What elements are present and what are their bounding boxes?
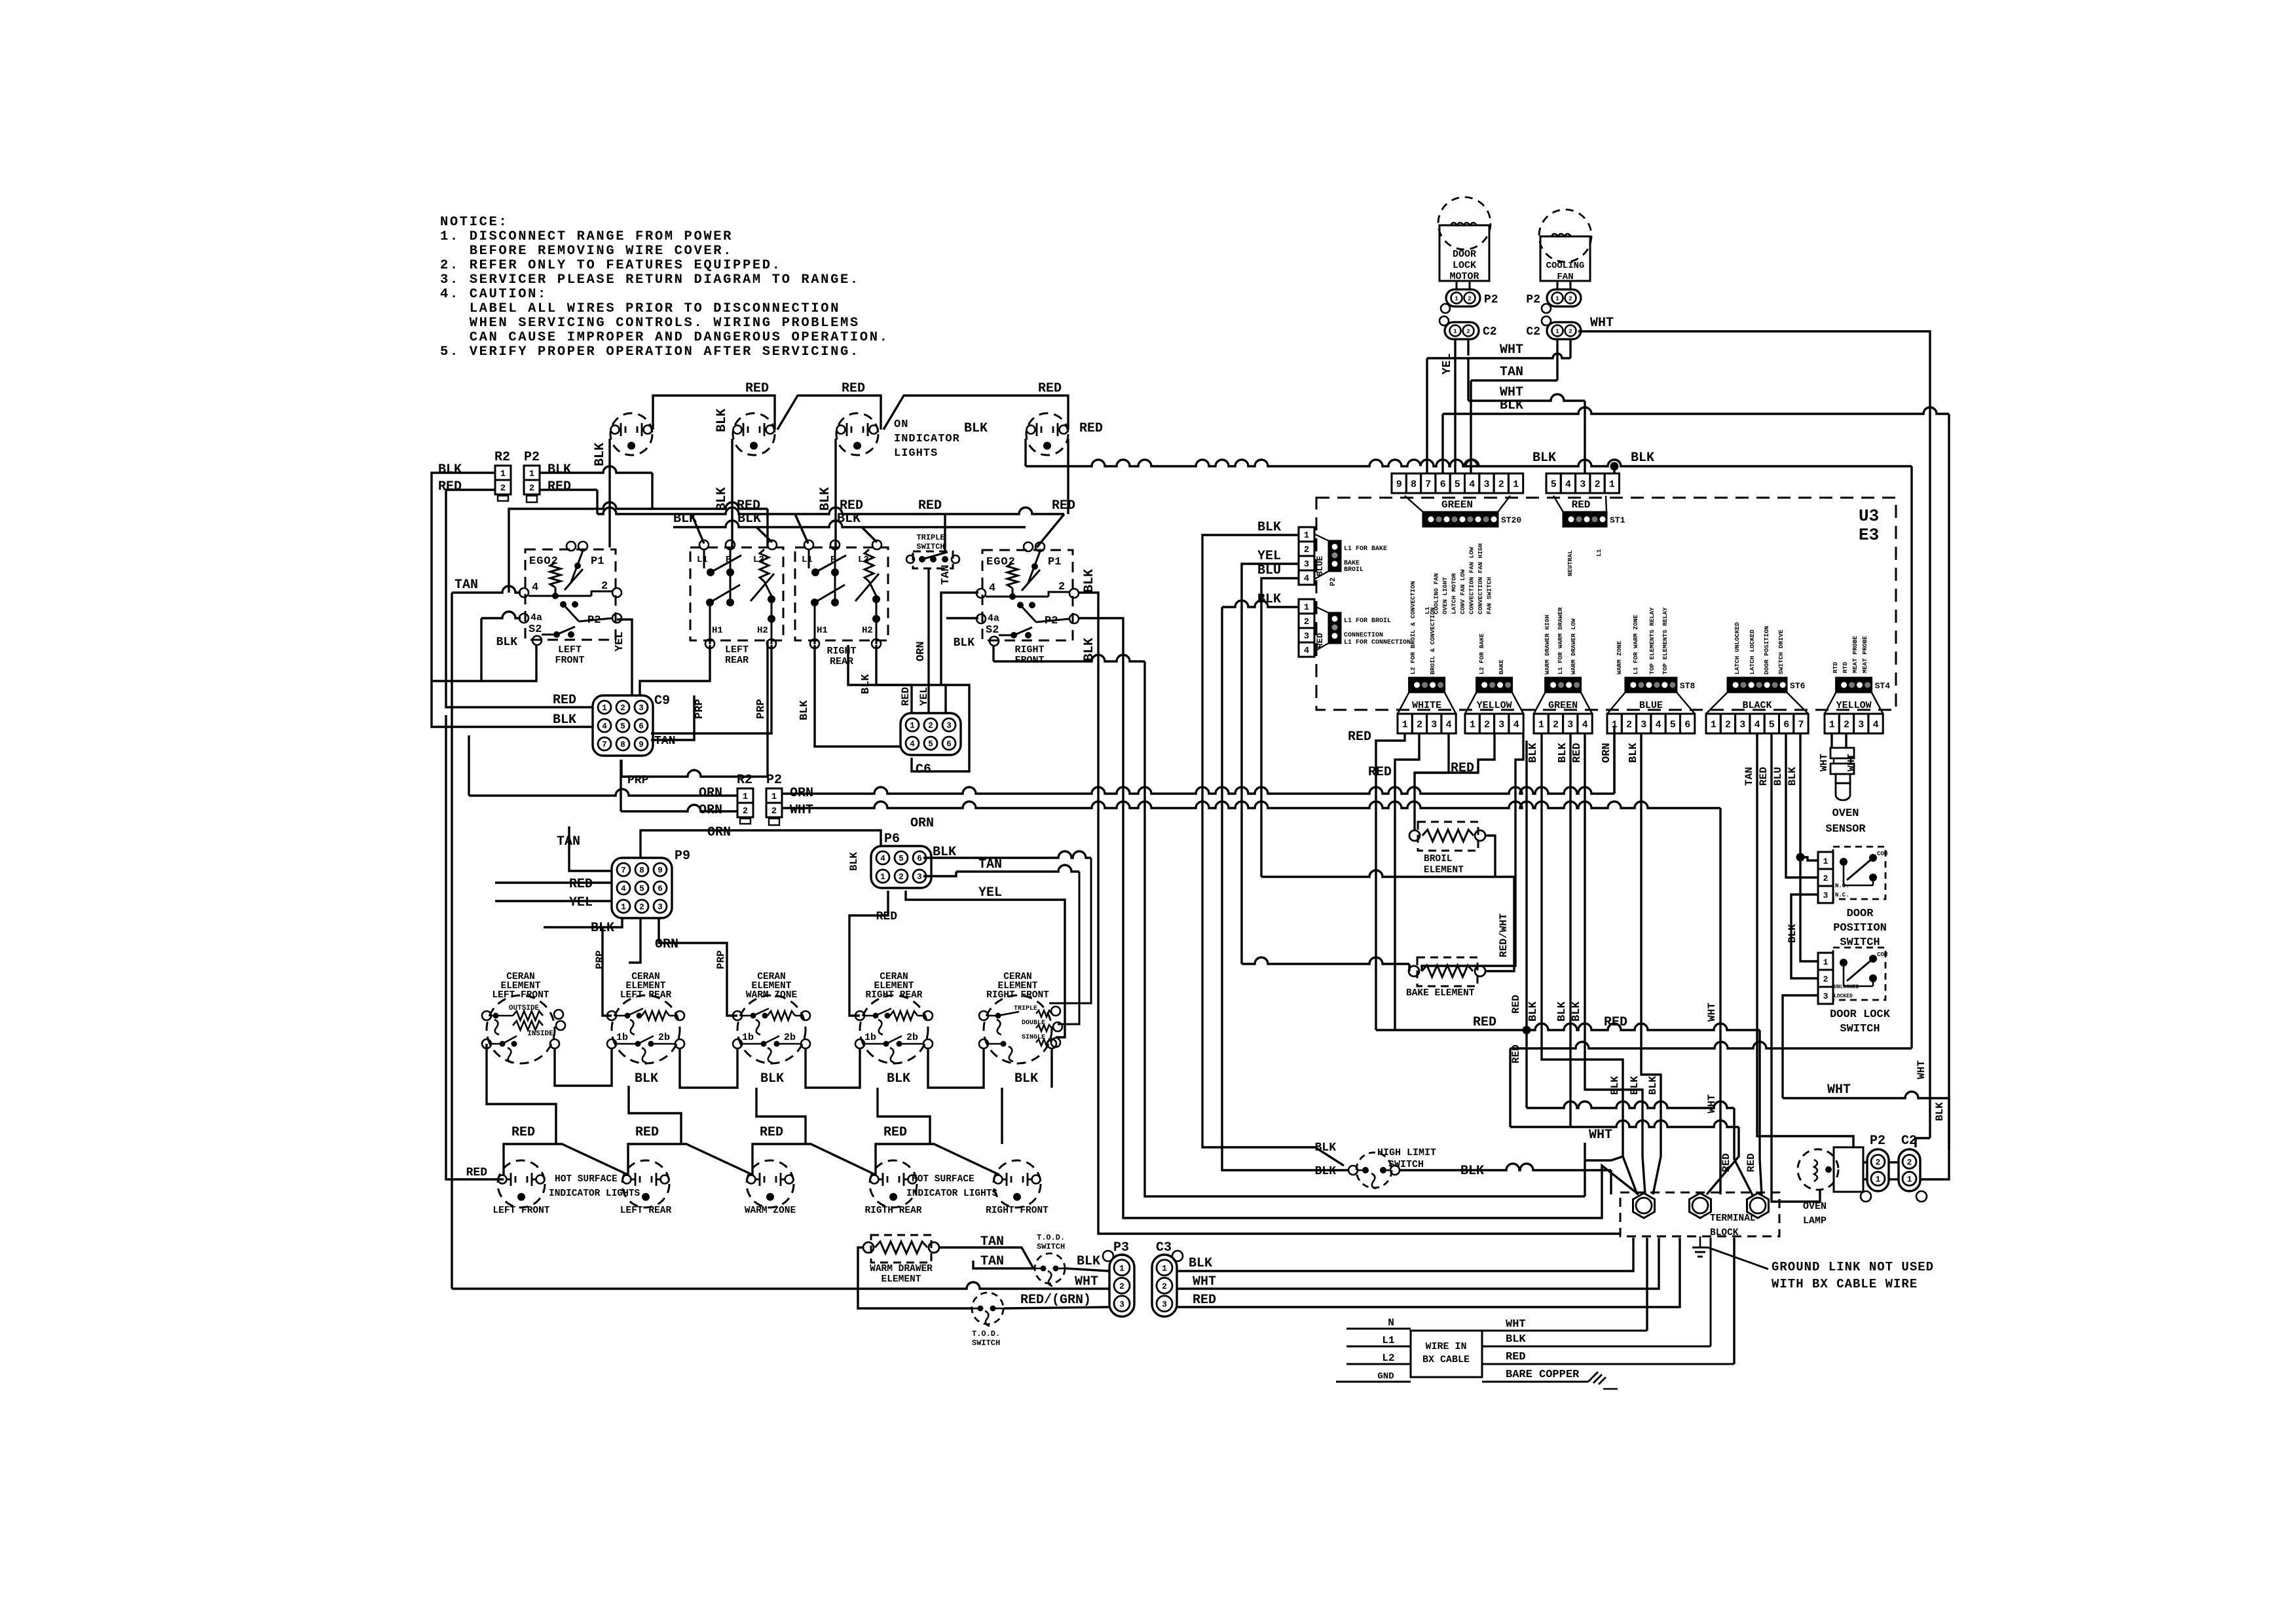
svg-text:SWITCH: SWITCH: [972, 1338, 1000, 1348]
svg-text:2. REFER ONLY TO FEATURES EQUI: 2. REFER ONLY TO FEATURES EQUIPPED.: [440, 258, 782, 273]
label GROUND LINK NOT USED: [1772, 1260, 1934, 1291]
svg-text:BLU: BLU: [1772, 767, 1784, 786]
wire RED lamp2-lamp3: [777, 381, 881, 430]
svg-text:L1 FOR WARM ZONE: L1 FOR WARM ZONE: [1632, 614, 1639, 674]
svg-text:L1: L1: [1382, 1335, 1394, 1346]
svg-text:SINGLE: SINGLE: [1022, 1034, 1045, 1041]
svg-text:CONNECTION: CONNECTION: [1344, 632, 1383, 639]
svg-text:H1: H1: [817, 625, 828, 636]
cooling fan: [1539, 210, 1591, 282]
svg-text:3: 3: [1119, 1299, 1124, 1309]
wire RED drop below: [1527, 1030, 1753, 1195]
svg-text:GND: GND: [1377, 1371, 1394, 1382]
svg-text:BLK: BLK: [1527, 743, 1540, 763]
wire staircase 1: [1079, 593, 1620, 1234]
board WHITE signal labels: [1409, 581, 1436, 674]
svg-text:BLK: BLK: [1627, 743, 1640, 763]
svg-text:PRP: PRP: [694, 699, 706, 719]
hot surface indicator light LEFT REAR: [620, 1160, 672, 1216]
wire WHT long bus: [782, 802, 1720, 1182]
BX cable input lines: [1336, 1317, 1411, 1382]
svg-text:P1: P1: [591, 555, 604, 568]
svg-text:INDICATOR: INDICATOR: [894, 433, 960, 445]
svg-text:S2: S2: [986, 624, 999, 637]
svg-text:1: 1: [1612, 720, 1618, 731]
svg-text:BLK: BLK: [593, 443, 608, 466]
svg-text:7: 7: [621, 866, 626, 876]
wire BLK ceran chain: [555, 1048, 1052, 1088]
svg-text:P3: P3: [1113, 1240, 1129, 1255]
wire green3 BLK: [1557, 733, 1570, 763]
svg-text:RED: RED: [1572, 499, 1591, 511]
wire RED yellow2: [1415, 733, 1494, 776]
wire WHT into terminal 1: [1585, 1128, 1623, 1196]
terminal block: [1620, 1192, 1779, 1238]
svg-text:BLK: BLK: [1506, 1333, 1526, 1346]
svg-text:RED: RED: [553, 693, 576, 708]
wire broil loop: [1261, 836, 1495, 877]
svg-text:C9: C9: [654, 693, 670, 709]
svg-text:1: 1: [1823, 857, 1828, 866]
svg-text:TAN: TAN: [980, 1254, 1004, 1269]
board GREEN2 signal labels: [1544, 607, 1577, 674]
wire TAN from C9: [651, 695, 694, 740]
svg-text:BLK: BLK: [438, 462, 462, 477]
connector C2 (door lock motor): [1439, 316, 1497, 339]
control board U3/E3 dashed outline: [1316, 498, 1896, 710]
wire ORN P9 top: [640, 816, 934, 858]
wire staircase 2: [1079, 618, 1639, 1218]
wire YEL from left front P2: [614, 619, 632, 695]
wire TAN fan C2: [1471, 339, 1557, 473]
wire P6 YEL: [906, 891, 1065, 1037]
svg-text:BLK: BLK: [1787, 767, 1798, 786]
board YELLOW2 signal labels: [1832, 636, 1868, 673]
svg-text:TAN: TAN: [1743, 767, 1755, 786]
svg-text:YELLOW: YELLOW: [1477, 700, 1512, 711]
svg-text:4: 4: [910, 740, 915, 749]
svg-text:RED: RED: [1571, 743, 1584, 763]
svg-text:OVEN LIGHT: OVEN LIGHT: [1441, 577, 1449, 614]
wire RED lamp chain 2: [628, 1125, 752, 1175]
svg-text:1b: 1b: [864, 1032, 876, 1043]
wire in BX cable box: [1411, 1331, 1482, 1377]
surface switch LEFT REAR: [690, 540, 783, 666]
svg-text:LEFT REAR: LEFT REAR: [620, 990, 672, 1001]
svg-text:RED: RED: [1368, 765, 1392, 780]
svg-text:WHT: WHT: [1819, 754, 1830, 771]
svg-text:C2: C2: [1483, 325, 1497, 339]
board connector RED (5 cells): [1546, 473, 1620, 511]
hot surface indicator light LEFT FRONT: [492, 1160, 549, 1216]
svg-text:BLK: BLK: [715, 487, 730, 511]
connector P3: [1103, 1240, 1134, 1317]
svg-text:LABEL ALL WIRES PRIOR TO DISCO: LABEL ALL WIRES PRIOR TO DISCONNECTION: [440, 301, 840, 316]
svg-text:BLK: BLK: [1787, 924, 1798, 943]
svg-text:WHT: WHT: [1916, 1060, 1927, 1079]
svg-text:OVEN: OVEN: [1832, 807, 1859, 820]
svg-text:3: 3: [946, 722, 952, 731]
wire RED lamp3-lamp4: [883, 381, 1068, 430]
svg-text:N: N: [1388, 1317, 1394, 1329]
svg-text:RIGTH REAR: RIGTH REAR: [864, 1206, 921, 1216]
BX cable output WHT: [1482, 1238, 1647, 1331]
svg-text:YEL: YEL: [569, 895, 593, 910]
wire WHT to RED cell3: [1468, 358, 1585, 473]
connector C9: [593, 693, 675, 787]
wire BLK rail left: [432, 473, 593, 728]
svg-text:4a: 4a: [530, 612, 542, 623]
door lock switch: [1818, 948, 1891, 1035]
svg-text:2: 2: [529, 483, 534, 494]
svg-text:BLACK: BLACK: [1743, 700, 1772, 711]
svg-text:WIRE IN: WIRE IN: [1425, 1341, 1466, 1352]
svg-text:WHITE: WHITE: [1412, 700, 1441, 711]
svg-text:GROUND LINK NOT USED: GROUND LINK NOT USED: [1772, 1260, 1934, 1274]
wire ceran WZ drop: [756, 1088, 806, 1144]
svg-text:L2 FOR BAKE: L2 FOR BAKE: [1478, 633, 1485, 674]
wire RED lamp4 right: [1068, 421, 1103, 514]
svg-text:1: 1: [1829, 720, 1835, 731]
wire black5 RED: [1758, 733, 1820, 1202]
svg-text:8: 8: [1411, 479, 1417, 490]
svg-text:RED: RED: [569, 877, 593, 892]
svg-text:CONVECTION FAN HIGH: CONVECTION FAN HIGH: [1477, 543, 1484, 614]
svg-text:2: 2: [1484, 720, 1490, 731]
svg-text:YEL: YEL: [1257, 549, 1281, 564]
svg-text:1: 1: [1555, 328, 1559, 335]
svg-text:BLK: BLK: [1315, 1141, 1337, 1154]
wire LEFT REAR H1 down: [640, 645, 710, 719]
connector P2 (middle): [766, 773, 813, 825]
svg-text:4: 4: [1656, 720, 1661, 731]
svg-text:2: 2: [1466, 328, 1470, 335]
svg-text:MOTOR: MOTOR: [1449, 271, 1479, 282]
wire BLK lamp1 drop: [593, 439, 610, 547]
svg-text:4a: 4a: [988, 613, 999, 624]
connector C2 (oven lamp): [1899, 1134, 1927, 1202]
svg-text:DOOR LOCK: DOOR LOCK: [1830, 1008, 1891, 1021]
on indicator light 2: [733, 413, 775, 455]
svg-text:RED: RED: [511, 1125, 535, 1140]
svg-text:9: 9: [639, 741, 644, 750]
svg-text:RED: RED: [635, 1125, 659, 1140]
svg-text:DOUBLE: DOUBLE: [1022, 1020, 1045, 1027]
board connector BLUE (4 cells vertical): [1299, 527, 1325, 585]
svg-text:MEAT PROBE: MEAT PROBE: [1861, 636, 1868, 673]
svg-text:P9: P9: [675, 849, 690, 864]
svg-text:LATCH UNLOCKED: LATCH UNLOCKED: [1734, 622, 1741, 674]
svg-text:BLUE: BLUE: [1315, 556, 1325, 576]
svg-text:2: 2: [899, 873, 904, 882]
svg-text:FRONT: FRONT: [555, 655, 584, 666]
svg-text:1: 1: [1538, 720, 1544, 731]
svg-text:ST6: ST6: [1790, 681, 1806, 691]
svg-text:WHT: WHT: [1506, 1318, 1526, 1331]
svg-text:RED: RED: [466, 1166, 488, 1179]
svg-text:P2: P2: [766, 773, 782, 788]
svg-text:ORN: ORN: [915, 641, 927, 661]
svg-text:P2: P2: [1329, 578, 1337, 586]
board pin strip ST1: [1553, 496, 1625, 576]
svg-text:HOT SURFACE: HOT SURFACE: [555, 1174, 618, 1185]
wire ORN below P9: [659, 918, 737, 1016]
svg-text:RIGHT: RIGHT: [1014, 644, 1044, 655]
wire blue3 BLK: [1627, 733, 1641, 763]
svg-text:2: 2: [1725, 720, 1731, 731]
svg-text:2: 2: [620, 704, 625, 713]
svg-text:WARM ZONE: WARM ZONE: [746, 990, 798, 1001]
svg-text:RED/WHT: RED/WHT: [1498, 913, 1510, 957]
wire black6 BLU: [1772, 733, 1818, 877]
svg-text:COM: COM: [1877, 851, 1887, 857]
svg-text:FAN SWITCH: FAN SWITCH: [1486, 577, 1493, 614]
svg-text:WITH BX CABLE WIRE: WITH BX CABLE WIRE: [1772, 1277, 1918, 1291]
svg-text:U3: U3: [1859, 506, 1879, 526]
wire WHT vertical label: [1706, 1003, 1720, 1194]
svg-text:SWITCH: SWITCH: [1388, 1159, 1424, 1170]
wire YEL into P9: [495, 900, 612, 902]
svg-text:BLK: BLK: [760, 1071, 784, 1086]
svg-text:2: 2: [500, 483, 506, 494]
svg-text:TAN: TAN: [1500, 365, 1523, 380]
board BLACK signal labels: [1734, 622, 1785, 674]
svg-text:TAN: TAN: [654, 735, 675, 748]
svg-text:2: 2: [1304, 617, 1309, 627]
wire TAN to left front pin 4: [452, 578, 521, 1289]
svg-text:3: 3: [1162, 1299, 1167, 1309]
svg-text:7: 7: [602, 741, 607, 750]
connector C2 (cooling fan): [1526, 316, 1581, 339]
svg-text:RED: RED: [1079, 421, 1103, 436]
svg-text:YEL: YEL: [1441, 354, 1454, 375]
svg-text:BLK: BLK: [737, 511, 761, 526]
svg-text:6: 6: [658, 885, 663, 894]
svg-text:2: 2: [1823, 874, 1828, 883]
svg-text:L1 FOR WARM DRAWER: L1 FOR WARM DRAWER: [1557, 607, 1564, 674]
svg-text:P2: P2: [1870, 1134, 1885, 1149]
on indicator light 3: [836, 413, 878, 455]
wire BLK bus upper-left: [673, 511, 1026, 542]
svg-text:TERMINAL: TERMINAL: [1710, 1213, 1756, 1224]
svg-text:8: 8: [639, 866, 644, 876]
wire C3-1 BLK out: [1176, 1238, 1633, 1271]
wire oven lamp to P2: [1863, 1162, 1867, 1179]
wire BLK bus board: [1443, 398, 1949, 1149]
svg-text:6: 6: [1440, 479, 1446, 490]
svg-text:1: 1: [771, 792, 777, 802]
svg-text:P1: P1: [1048, 556, 1061, 568]
svg-text:ON: ON: [894, 418, 908, 431]
svg-text:COOLING: COOLING: [1546, 261, 1585, 271]
svg-text:RTD: RTD: [1832, 662, 1839, 673]
svg-text:BLK: BLK: [1532, 451, 1556, 466]
wire BLK below P9: [544, 918, 622, 1016]
ceran element WARM ZONE: [733, 972, 810, 1063]
svg-text:4: 4: [1565, 479, 1571, 490]
wire ceran LF bottom drop: [487, 1044, 556, 1144]
board ST20 signal labels: [1424, 543, 1493, 614]
svg-text:L1: L1: [802, 555, 813, 565]
wire blue1 ORN: [1601, 733, 1614, 794]
svg-text:4: 4: [1469, 479, 1475, 490]
svg-text:RED: RED: [438, 479, 462, 494]
svg-text:DOOR POSITION: DOOR POSITION: [1763, 626, 1770, 674]
svg-text:L1 FOR CONNECTION: L1 FOR CONNECTION: [1344, 639, 1411, 646]
svg-text:2: 2: [1907, 1158, 1912, 1168]
svg-text:BLK: BLK: [1557, 743, 1569, 763]
notice text block: [440, 215, 889, 360]
svg-text:1. DISCONNECT RANGE FROM POWER: 1. DISCONNECT RANGE FROM POWER: [440, 229, 733, 244]
svg-text:LEFT REAR: LEFT REAR: [620, 1206, 672, 1216]
svg-text:H2: H2: [757, 625, 768, 636]
svg-text:WARM ZONE: WARM ZONE: [745, 1206, 796, 1216]
wire BLK lamp2 drop: [715, 409, 732, 547]
broil element: [1409, 822, 1485, 876]
svg-text:ST1: ST1: [1610, 515, 1625, 525]
svg-text:BLK: BLK: [860, 674, 872, 694]
svg-text:TAN: TAN: [978, 857, 1002, 872]
svg-text:1: 1: [529, 469, 534, 479]
svg-text:1b: 1b: [616, 1032, 628, 1043]
svg-text:ORN: ORN: [707, 825, 731, 840]
wire door lock pin3 / WHT to C2: [1783, 995, 1949, 1179]
svg-text:BLK: BLK: [954, 637, 975, 650]
ceran element RIGHT FRONT: [979, 972, 1062, 1063]
svg-text:NEUTRAL: NEUTRAL: [1567, 550, 1574, 576]
svg-text:BLK: BLK: [715, 409, 730, 432]
svg-text:RED: RED: [918, 498, 942, 513]
on indicator light 4: [1026, 413, 1068, 455]
wire RED bus to elements: [1376, 995, 1762, 1195]
svg-text:RED: RED: [1348, 729, 1371, 745]
svg-text:RED: RED: [548, 479, 571, 494]
svg-text:GREEN: GREEN: [1441, 499, 1473, 511]
wire ceran RR drop: [878, 1088, 930, 1144]
svg-text:BLK: BLK: [887, 1071, 910, 1086]
svg-text:2: 2: [928, 722, 933, 731]
wire yellow2-2 WHT: [1846, 733, 1857, 771]
wire TAN warm drawer to TOD: [939, 1247, 1033, 1268]
board connector RED2 (4 cells vertical): [1299, 599, 1325, 657]
svg-text:1: 1: [621, 903, 626, 912]
svg-text:RED: RED: [1745, 1153, 1757, 1172]
svg-text:BEFORE REMOVING WIRE COVER.: BEFORE REMOVING WIRE COVER.: [440, 244, 733, 259]
svg-text:1: 1: [1513, 479, 1519, 490]
svg-text:WHEN SERVICING CONTROLS. WIRIN: WHEN SERVICING CONTROLS. WIRING PROBLEMS: [440, 316, 860, 331]
svg-text:4: 4: [1446, 720, 1452, 731]
svg-text:BLK: BLK: [548, 462, 571, 477]
surface switch RIGHT REAR: [795, 540, 888, 667]
BX cable output BARE COPPER: [1482, 1369, 1618, 1389]
svg-text:H2: H2: [862, 625, 873, 636]
svg-text:2: 2: [1626, 720, 1632, 731]
svg-text:1: 1: [1876, 1175, 1881, 1185]
wire black7 BLK: [1787, 733, 1818, 961]
svg-text:2: 2: [743, 806, 748, 817]
wire TAN to RF pin4: [940, 564, 978, 685]
svg-text:R2: R2: [494, 450, 510, 465]
svg-text:FAN: FAN: [1557, 272, 1573, 282]
svg-text:BLK: BLK: [818, 487, 833, 511]
svg-text:BLK: BLK: [837, 511, 861, 526]
wire C6 pin1 up: [848, 645, 912, 713]
board connector YELLOW2: [1825, 678, 1890, 733]
svg-text:9: 9: [658, 866, 663, 876]
svg-text:YELLOW: YELLOW: [1836, 700, 1872, 711]
wire RED from P2-2: [540, 489, 597, 490]
wire YEL from BLUE3: [1242, 549, 1409, 971]
svg-text:4: 4: [1582, 720, 1588, 731]
oven sensor: [1825, 748, 1866, 836]
svg-text:5: 5: [639, 885, 644, 894]
svg-text:BLK: BLK: [1257, 520, 1281, 535]
svg-text:4: 4: [1754, 720, 1760, 731]
wire BLK bus 2: [1026, 451, 1912, 1048]
wire BLU from BLUE4: [1257, 563, 1299, 877]
svg-text:COM: COM: [1877, 951, 1887, 958]
svg-text:1: 1: [1162, 1263, 1167, 1273]
wire white4 down: [1415, 733, 1449, 830]
wire yellow4 down: [1422, 733, 1523, 971]
wire RED lamp chain 4: [876, 1125, 999, 1175]
label TAN pair: [980, 1234, 1004, 1269]
svg-text:3: 3: [1483, 479, 1489, 490]
wire RED first lamp: [446, 715, 504, 1179]
svg-text:INSIDE: INSIDE: [527, 1030, 553, 1038]
svg-text:TOP ELEMENTS RELAY: TOP ELEMENTS RELAY: [1648, 607, 1656, 674]
svg-text:1: 1: [1609, 479, 1615, 490]
wire RED white2: [1368, 733, 1419, 1030]
wire P6 RED: [849, 891, 888, 1016]
svg-text:L2: L2: [1382, 1352, 1394, 1364]
svg-text:1: 1: [1402, 720, 1408, 731]
svg-text:6: 6: [1783, 720, 1789, 731]
wire door position pin1: [1800, 857, 1818, 860]
triple switch: [906, 514, 959, 568]
svg-text:BLK: BLK: [673, 511, 697, 526]
svg-text:1: 1: [1555, 295, 1559, 303]
t.o.d. switch 2: [971, 1293, 1004, 1348]
svg-text:BAKE ELEMENT: BAKE ELEMENT: [1406, 988, 1475, 999]
wire RIGHT REAR H2 down: [860, 645, 946, 694]
svg-text:ORN: ORN: [1601, 743, 1613, 763]
svg-text:DOOR: DOOR: [1847, 908, 1874, 920]
svg-text:WHT: WHT: [1706, 1094, 1718, 1113]
svg-text:3: 3: [1823, 991, 1828, 1001]
svg-text:RED: RED: [883, 1125, 907, 1140]
board pin strip BLUE: [1314, 534, 1387, 586]
svg-text:BLK: BLK: [1647, 1076, 1659, 1095]
svg-text:3: 3: [1431, 720, 1437, 731]
svg-text:HIGH LIMIT: HIGH LIMIT: [1377, 1147, 1436, 1158]
connector C6: [900, 687, 961, 777]
svg-text:WHT: WHT: [1193, 1274, 1216, 1289]
svg-text:3: 3: [639, 704, 644, 713]
wire WHT to P3-2: [452, 1274, 1109, 1289]
svg-text:L1: L1: [1595, 549, 1603, 557]
svg-text:RED: RED: [760, 1125, 783, 1140]
wire BLK from RED2-1: [1222, 592, 1348, 1170]
svg-text:1: 1: [1304, 530, 1309, 541]
svg-text:BLK: BLK: [1570, 1001, 1583, 1022]
connector P9: [557, 834, 690, 952]
svg-text:BLK: BLK: [1934, 1102, 1946, 1121]
svg-text:WHT: WHT: [1590, 316, 1614, 331]
svg-text:PRP: PRP: [594, 950, 606, 969]
svg-text:P2: P2: [524, 450, 540, 465]
svg-text:BARE COPPER: BARE COPPER: [1506, 1369, 1580, 1381]
